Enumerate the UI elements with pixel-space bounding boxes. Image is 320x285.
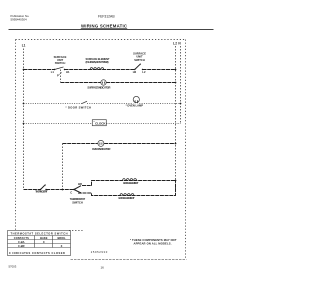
svg-text:BAKE: BAKE — [40, 236, 48, 240]
svg-text:5995440304: 5995440304 — [11, 18, 27, 22]
svg-text:APPEAR ON ALL MODELS.: APPEAR ON ALL MODELS. — [134, 241, 172, 245]
svg-text:SWITCH: SWITCH — [134, 58, 145, 62]
svg-text:L2: L2 — [142, 70, 146, 74]
svg-text:THERMOSTAT SELECTOR SWITCH: THERMOSTAT SELECTOR SWITCH — [11, 232, 68, 236]
svg-text:25952930: 25952930 — [91, 250, 108, 254]
svg-text:L1: L1 — [51, 70, 55, 74]
svg-text:OVEN INDICATOR: OVEN INDICATOR — [92, 147, 111, 151]
svg-text:L2 N: L2 N — [173, 41, 181, 45]
svg-text:BAKE ELEMENT: BAKE ELEMENT — [119, 196, 135, 200]
svg-text:THERMOSTAT: THERMOSTAT — [35, 190, 48, 194]
svg-text:SWITCH: SWITCH — [55, 61, 66, 65]
svg-text:BROIL ELEMENT: BROIL ELEMENT — [123, 181, 138, 185]
svg-text:SWITCH: SWITCH — [72, 200, 83, 204]
svg-text:57003: 57003 — [9, 265, 17, 269]
svg-text:C-BA: C-BA — [18, 240, 25, 244]
svg-text:BA: BA — [78, 191, 82, 195]
svg-text:X: X — [43, 240, 45, 244]
svg-text:SURFACE INDICATOR: SURFACE INDICATOR — [87, 86, 110, 90]
svg-text:H1: H1 — [66, 70, 70, 74]
svg-text:CONTACTS: CONTACTS — [14, 236, 29, 240]
svg-text:P: P — [57, 74, 59, 78]
svg-text:H2: H2 — [133, 70, 137, 74]
svg-text:CLOCK: CLOCK — [95, 121, 106, 125]
svg-text:X INDICATES CONTACTS CLOSED: X INDICATES CONTACTS CLOSED — [9, 251, 65, 255]
svg-text:16: 16 — [101, 266, 105, 270]
svg-text:(1 SHOWN, 4 IN SYSTEM): (1 SHOWN, 4 IN SYSTEM) — [86, 60, 109, 64]
svg-text:BR: BR — [78, 182, 82, 186]
svg-text:L1: L1 — [22, 44, 26, 48]
svg-text:* OVEN LAMP: * OVEN LAMP — [126, 103, 144, 107]
svg-text:C: C — [70, 191, 72, 195]
svg-text:FEF312AB: FEF312AB — [98, 14, 115, 18]
svg-text:C-BR: C-BR — [18, 244, 25, 248]
svg-text:X: X — [61, 244, 63, 248]
svg-text:* DOOR SWITCH: * DOOR SWITCH — [66, 105, 92, 109]
svg-text:BROIL: BROIL — [57, 236, 65, 240]
svg-text:WIRING SCHEMATIC: WIRING SCHEMATIC — [81, 23, 127, 28]
